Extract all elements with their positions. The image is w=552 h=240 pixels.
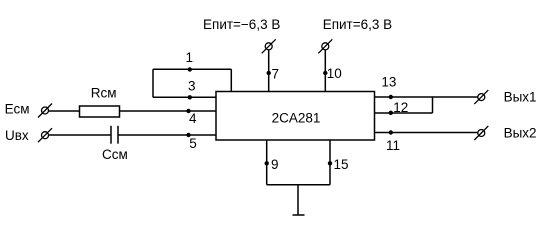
ground: [293, 214, 305, 216]
svg-text:Rсм: Rсм: [91, 86, 117, 101]
junction dot pin9: [265, 161, 269, 165]
terminal pin7 (−6,3 В): [262, 39, 276, 53]
svg-text:Ссм: Ссм: [102, 147, 128, 162]
wire loop top (pin1 to pin3 link): [153, 68, 231, 70]
svg-text:Вых1: Вых1: [504, 89, 537, 104]
capacitor Ссм: [111, 126, 118, 144]
wire capacitor to pin5: [118, 134, 216, 136]
svg-text:4: 4: [189, 111, 197, 126]
wire pin7 vertical: [268, 50, 270, 92]
svg-text:7: 7: [272, 67, 280, 82]
wire pin15 vertical: [329, 140, 331, 185]
terminal Вых1: [474, 90, 488, 104]
svg-text:10: 10: [327, 66, 342, 81]
wire loop left vertical: [152, 69, 154, 97]
junction dot pin12: [389, 111, 393, 115]
svg-text:11: 11: [386, 138, 400, 153]
svg-text:Есм: Есм: [5, 102, 30, 117]
svg-text:Епит=6,3 В: Епит=6,3 В: [323, 17, 392, 32]
wire ground stem: [297, 185, 299, 215]
svg-text:Вых2: Вых2: [504, 126, 537, 141]
junction dot pin13: [389, 95, 393, 99]
wire pin11 horizontal: [375, 132, 478, 134]
IC U1 2CA281 box: [216, 92, 375, 141]
svg-text:13: 13: [381, 75, 396, 90]
wire Uвх to capacitor: [49, 134, 112, 136]
svg-text:Епит=−6,3 В: Епит=−6,3 В: [203, 17, 280, 32]
junction dot pin11: [389, 130, 393, 134]
resistor Rсм: [80, 106, 120, 117]
terminal Uвх: [38, 128, 52, 142]
wire pin10 vertical: [324, 50, 326, 92]
terminal Вых2: [474, 126, 488, 140]
svg-text:15: 15: [334, 157, 349, 172]
junction dot pin4: [186, 109, 190, 113]
svg-text:12: 12: [393, 100, 408, 115]
wire pin13 horizontal: [375, 96, 478, 98]
wire pin12-pin13 vertical link: [432, 97, 434, 113]
junction dot pin7: [267, 71, 271, 75]
wire Есм to resistor: [49, 110, 80, 112]
svg-text:9: 9: [271, 157, 279, 172]
svg-text:2CA281: 2CA281: [272, 111, 321, 126]
junction dot pin5: [186, 133, 190, 137]
junction dot pin1: [188, 67, 192, 71]
svg-text:Uвх: Uвх: [5, 128, 29, 143]
wire pin9 vertical: [266, 140, 268, 185]
svg-text:5: 5: [189, 136, 197, 151]
junction dot pin15: [328, 161, 332, 165]
terminal Есм: [38, 104, 52, 118]
terminal pin10 (+6,3 В): [318, 39, 332, 53]
svg-text:3: 3: [188, 79, 196, 94]
wire pin12 horizontal: [375, 112, 433, 114]
junction dot pin3: [188, 95, 192, 99]
svg-text:1: 1: [186, 50, 194, 65]
wire resistor to pin4: [120, 110, 217, 112]
junction dot pin10: [323, 71, 327, 75]
wire pin3 horizontal: [153, 96, 216, 98]
wire pin1 vertical: [230, 69, 232, 91]
wire bottom horizontal pin9-pin15: [267, 184, 330, 186]
